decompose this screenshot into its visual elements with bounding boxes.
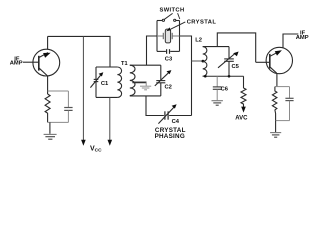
capacitor C (Q1 bypass) [64, 91, 72, 122]
wire Q2 emitter down [276, 73, 278, 86]
capacitor C5 (variable) [218, 47, 235, 77]
wire loop1 top edge [96, 66, 117, 68]
capacitor C6 [213, 76, 222, 100]
label IF AMP (right) [296, 30, 309, 41]
wire Q1 collector up [47, 36, 49, 49]
svg-text:C5: C5 [231, 64, 239, 70]
switch S1 contacts [162, 19, 164, 21]
junction dot L2 tap [202, 60, 205, 63]
ground (C6) [212, 101, 223, 106]
ground (T1 tap) [140, 86, 151, 90]
wire junction top (Q2 RC) [275, 86, 290, 88]
switch leader right [178, 13, 180, 19]
wire loop3 bottom edge [203, 75, 244, 77]
wire Q2 top lead to IF AMP [283, 34, 298, 48]
svg-text:C3: C3 [165, 57, 173, 63]
wire to ground Q1 [49, 122, 51, 133]
svg-text:C1: C1 [101, 81, 109, 87]
wire loop2 top edge (T1 sec to C2) [130, 64, 161, 66]
wire crystal right node [180, 36, 192, 116]
inductor L2 winding [203, 47, 207, 77]
crystal Y1 [157, 29, 180, 43]
ground (Q1) [44, 134, 57, 139]
wire junction bottom (Q1 emitter RC) [48, 121, 69, 123]
svg-text:AMP: AMP [10, 61, 23, 67]
svg-text:PHASING: PHASING [155, 133, 185, 140]
wire top rail [48, 36, 110, 67]
wire crystal left node (down to loop2 top) [147, 36, 158, 65]
wire AVC branch down [243, 76, 245, 88]
wire loop3 top edge (L2 to C5) [203, 46, 229, 48]
capacitor C (Q2 bypass) [285, 87, 293, 121]
svg-text:CRYSTAL: CRYSTAL [187, 20, 217, 26]
wire VCC feed left [82, 36, 84, 141]
wire to ground Q2 [275, 121, 277, 133]
resistor R (AVC) [241, 88, 246, 107]
svg-text:SWITCH: SWITCH [160, 7, 185, 13]
wire L2 top node up and right to Q2 base [217, 33, 255, 62]
transistor Q1 IF AMP [33, 49, 60, 76]
arrow AVC down [241, 107, 246, 113]
junction dots loop3 bottom [204, 75, 207, 78]
wire loop1 bottom edge [96, 96, 117, 98]
transformer T1 secondary winding [130, 65, 135, 95]
transformer T1 primary winding [117, 67, 121, 97]
resistor R (Q2 emitter) [272, 87, 277, 121]
svg-text:C4: C4 [172, 119, 180, 125]
wire VCC feed right (loop1 bottom) [109, 97, 111, 141]
svg-text:AMP: AMP [296, 35, 309, 41]
wire junction bottom (Q2 RC) [276, 120, 290, 122]
wire Q1 base lead [23, 61, 39, 63]
svg-text:C6: C6 [221, 87, 229, 93]
crystal box [157, 21, 180, 52]
wire tap from crystal output riser to L2 [192, 60, 203, 62]
ground (Q2) [270, 133, 281, 138]
svg-text:L2: L2 [195, 38, 202, 44]
wire T1 secondary center tap [132, 81, 146, 83]
switch S1 blade [164, 13, 172, 19]
capacitor C3 (in box bottom edge) [157, 49, 180, 54]
label IF AMP (left) [10, 57, 23, 67]
transistor Q2 IF AMP [266, 47, 292, 73]
capacitor C2 (variable) [155, 65, 169, 96]
svg-text:T1: T1 [121, 61, 128, 67]
wire junction top (Q1 emitter RC) [48, 90, 69, 92]
capacitor C1 (variable) [90, 67, 101, 97]
capacitor C4 crystal phasing (variable) [158, 107, 191, 123]
wire loop2 bottom edge [130, 95, 161, 97]
svg-text:C2: C2 [164, 85, 171, 91]
wire Q2 base lead [256, 61, 270, 63]
wire Q1 emitter down [47, 76, 49, 94]
svg-text:AVC: AVC [235, 116, 248, 122]
resistor R1 (Q1 emitter) [45, 94, 50, 122]
wire sec bottom tap down to C4 line [146, 96, 164, 116]
